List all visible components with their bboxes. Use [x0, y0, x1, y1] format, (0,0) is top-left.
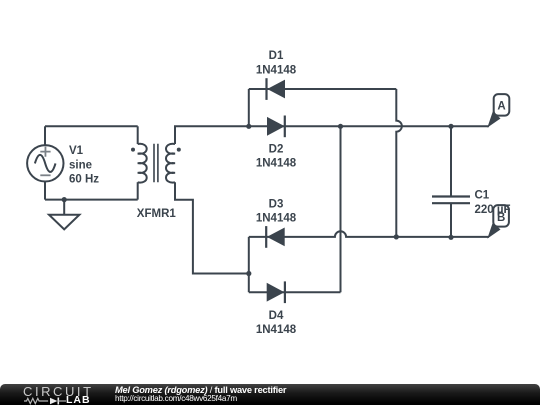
wire: D4 line	[249, 291, 341, 293]
credit line	[115, 386, 286, 395]
svg-text:1N4148: 1N4148	[256, 324, 297, 336]
node: junction dot capacitor bottom	[448, 235, 453, 240]
label C1 value	[475, 190, 511, 216]
svg-text:220 µF: 220 µF	[475, 204, 511, 216]
wire: secondary top lead to node	[175, 126, 249, 144]
voltage source V1	[27, 145, 63, 181]
svg-text:XFMR1: XFMR1	[137, 208, 177, 220]
ground	[49, 215, 79, 230]
wire: capacitor bottom lead	[450, 204, 452, 237]
capacitor C1	[432, 197, 470, 204]
url line	[115, 395, 237, 403]
wire: V1 bottom lead	[44, 181, 46, 200]
CircuitLab logo wordmark	[23, 387, 94, 397]
node: junction dot secondary bottom	[246, 271, 251, 276]
svg-text:D4: D4	[269, 310, 284, 322]
label V1 value	[69, 145, 99, 185]
svg-text:V1: V1	[69, 145, 84, 157]
wire: B rail with hop over mid vertical	[249, 231, 489, 237]
node: junction dot capacitor top	[448, 124, 453, 129]
wire: D1 output line	[249, 88, 396, 90]
footer bar	[0, 384, 540, 405]
svg-text:60 Hz: 60 Hz	[69, 174, 99, 186]
wire: capacitor top lead	[450, 126, 452, 195]
wire: A rail	[249, 125, 489, 127]
diode D2	[267, 116, 285, 138]
CircuitLab logo LAB	[66, 396, 91, 405]
label D2	[256, 143, 297, 169]
wire: V1 top lead	[44, 126, 46, 146]
wire: D1 left vertical branch	[248, 89, 250, 126]
diode D1	[267, 78, 286, 100]
wire: secondary bottom lead jog	[175, 182, 249, 273]
node: junction dot A rail / mid vertical	[338, 124, 343, 129]
diode D3	[266, 226, 285, 248]
diode D4	[267, 281, 285, 303]
svg-text:D1: D1	[269, 50, 284, 62]
label D3	[256, 198, 297, 224]
wire: mid vertical D4 to A rail	[340, 126, 342, 292]
svg-text:1N4148: 1N4148	[256, 64, 297, 76]
svg-text:A: A	[497, 101, 505, 113]
svg-text:C1: C1	[475, 190, 490, 202]
svg-text:sine: sine	[69, 159, 92, 171]
wire: right vertical with hop over A rail	[396, 89, 402, 237]
node A flag	[487, 94, 509, 128]
label D1	[256, 50, 297, 76]
node: junction dot B rail / right vertical	[394, 234, 399, 239]
svg-text:1N4148: 1N4148	[256, 158, 297, 170]
node: junction dot at ground tap	[62, 197, 67, 202]
wire: transformer primary top lead	[137, 126, 139, 144]
wire: transformer primary bottom lead	[137, 182, 139, 199]
svg-text:D2: D2	[269, 143, 284, 155]
logo resistor-diode squiggle	[20, 395, 70, 407]
wire: top rail primary	[45, 125, 138, 127]
transformer XFMR1	[138, 144, 175, 183]
label D4	[256, 310, 297, 336]
svg-text:D3: D3	[269, 198, 284, 210]
wire: D3-D4 left vertical	[248, 237, 250, 292]
node: junction dot secondary top	[246, 124, 251, 129]
node B flag	[487, 205, 509, 239]
svg-text:1N4148: 1N4148	[256, 213, 297, 225]
wire: ground stem	[63, 200, 65, 215]
wire: bottom rail primary	[45, 199, 138, 201]
